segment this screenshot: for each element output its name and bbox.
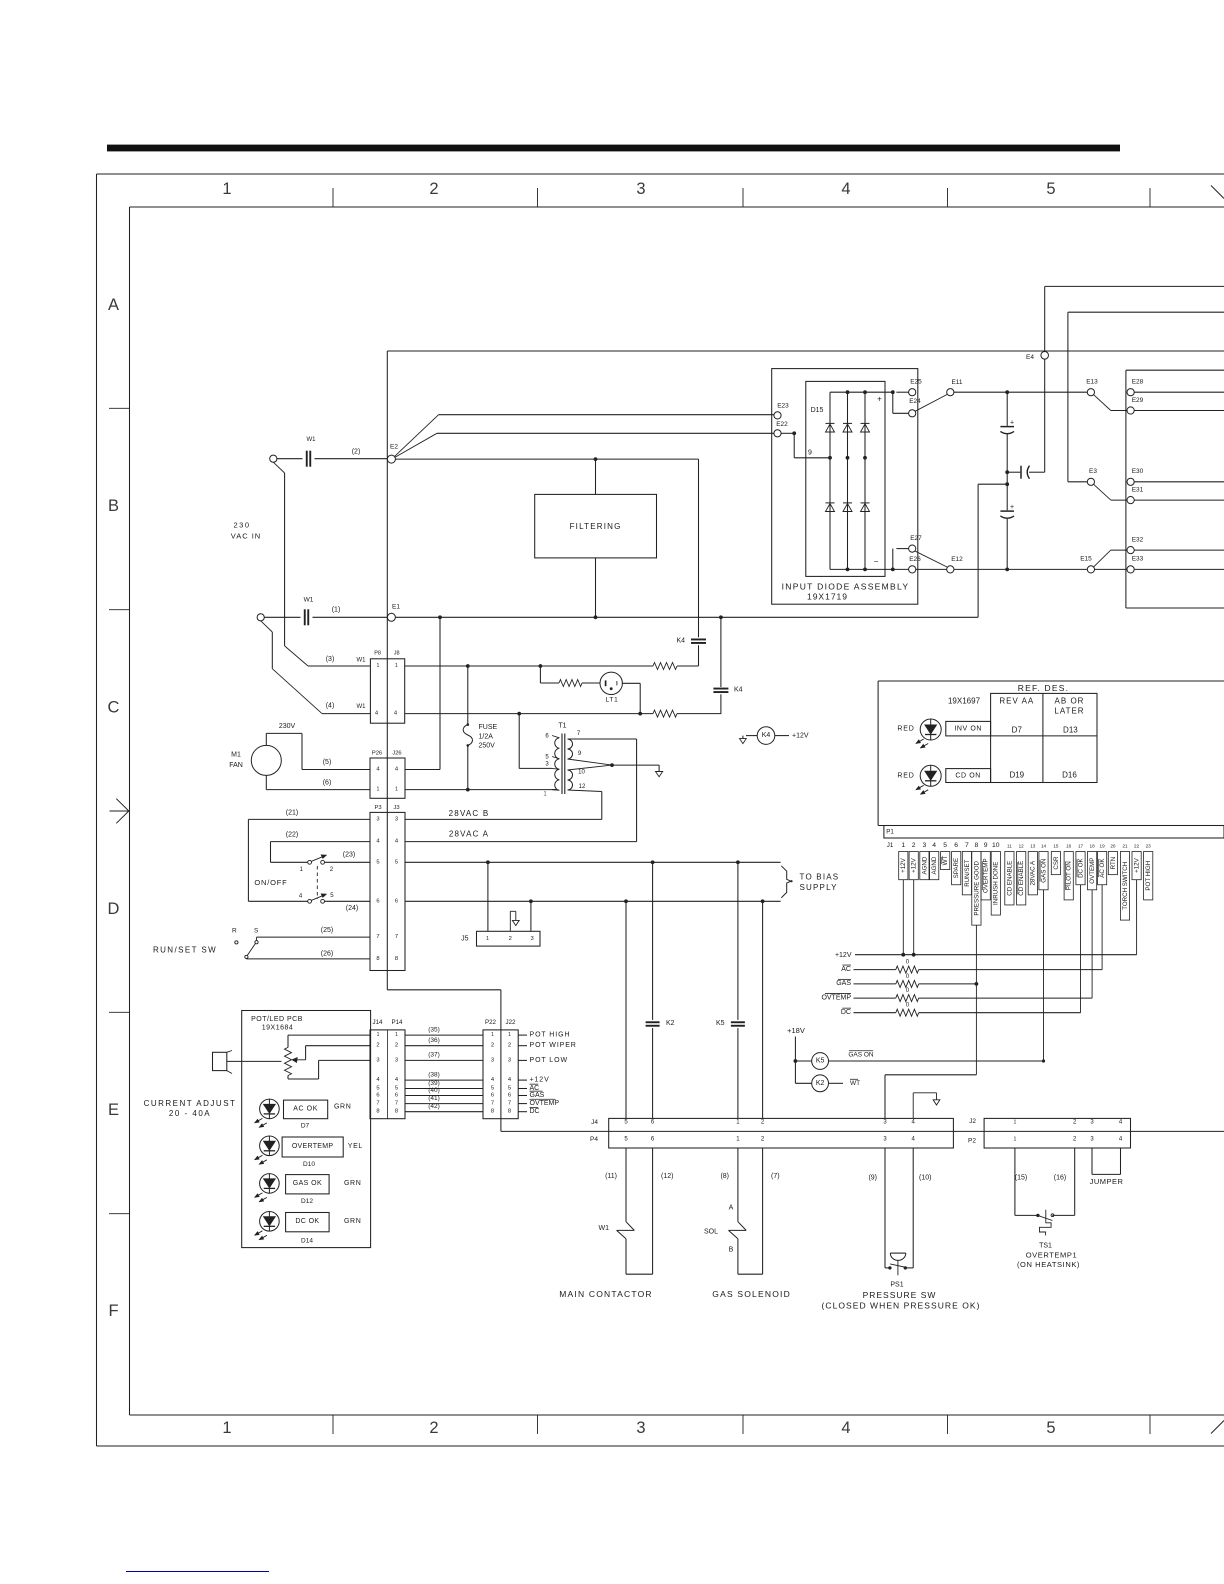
svg-text:7: 7 — [376, 1101, 379, 1107]
svg-text:1: 1 — [377, 663, 380, 669]
svg-text:(3): (3) — [326, 656, 335, 663]
row zone ticks left — [109, 407, 130, 409]
svg-text:PRESSURE SW: PRESSURE SW — [863, 1290, 937, 1300]
svg-text:(41): (41) — [428, 1095, 440, 1102]
svg-text:3: 3 — [1090, 1119, 1094, 1125]
resistor on J8-4 wire — [653, 710, 677, 717]
connector P1/J1 strip — [884, 826, 1224, 839]
svg-text:3: 3 — [376, 816, 379, 822]
svg-text:+12V: +12V — [530, 1077, 550, 1084]
svg-text:J22: J22 — [506, 1019, 517, 1026]
svg-text:POT HIGH: POT HIGH — [1145, 861, 1152, 891]
led D10 OVERTEMP — [260, 1136, 280, 1156]
column zone ticks bottom — [332, 1415, 334, 1434]
brace to bias supply — [781, 866, 791, 898]
svg-text:J1: J1 — [887, 842, 894, 849]
contact K5 — [737, 862, 739, 1020]
svg-text:3: 3 — [923, 842, 927, 849]
T1 pin 1 lead — [552, 789, 559, 792]
svg-text:J4: J4 — [591, 1119, 598, 1126]
svg-text:5: 5 — [376, 1086, 379, 1092]
svg-text:D15: D15 — [811, 407, 824, 414]
svg-text:P14: P14 — [391, 1019, 403, 1026]
pressure switch PS1 — [884, 1148, 886, 1268]
terminal E15 — [1087, 566, 1094, 573]
svg-text:250V: 250V — [479, 743, 496, 750]
jumper on J2 pins 3-4 — [1091, 1148, 1093, 1174]
svg-text:GAS: GAS — [530, 1092, 545, 1099]
svg-text:22: 22 — [1134, 843, 1140, 848]
svg-text:PS1: PS1 — [890, 1282, 903, 1289]
bridge rails — [829, 392, 831, 569]
svg-text:28VAC B: 28VAC B — [449, 809, 490, 818]
T1 pin 7 lead to 28VAC A — [568, 738, 637, 740]
svg-text:(38): (38) — [428, 1071, 440, 1078]
svg-text:2: 2 — [376, 1043, 379, 1049]
svg-text:P4: P4 — [590, 1136, 598, 1143]
wire to E22 — [437, 432, 774, 434]
wire E22 to bridge node 9 — [781, 432, 794, 434]
svg-text:12: 12 — [579, 784, 586, 790]
svg-text:E13: E13 — [1086, 379, 1098, 386]
svg-text:19X1684: 19X1684 — [262, 1025, 294, 1032]
svg-text:T1: T1 — [558, 723, 566, 730]
connector J14/P14 — [370, 1030, 405, 1119]
led D14 DC OK — [260, 1212, 280, 1232]
svg-text:7: 7 — [508, 1101, 511, 1107]
svg-text:E31: E31 — [1132, 487, 1144, 494]
svg-text:3: 3 — [636, 1419, 645, 1437]
svg-text:(4): (4) — [326, 703, 335, 710]
svg-text:E22: E22 — [776, 421, 788, 428]
svg-text:POT/LED PCB: POT/LED PCB — [251, 1016, 303, 1023]
svg-text:CSR: CSR — [1053, 856, 1060, 870]
svg-text:3: 3 — [491, 1057, 494, 1063]
svg-text:1/2A: 1/2A — [479, 734, 494, 741]
svg-text:D10: D10 — [303, 1161, 315, 1168]
svg-text:+: + — [1010, 420, 1014, 427]
ground at K4 — [742, 736, 744, 739]
contact W1 lower — [264, 616, 300, 618]
wire J26-4 to E1 bus — [405, 769, 440, 771]
svg-text:E: E — [108, 1101, 119, 1119]
svg-text:3: 3 — [508, 1057, 511, 1063]
svg-text:ON/OFF: ON/OFF — [254, 878, 287, 887]
potentiometer R1 current adjust — [285, 1047, 292, 1075]
fuse F1 — [467, 666, 469, 725]
svg-text:OVERTEMP1: OVERTEMP1 — [1026, 1251, 1078, 1260]
svg-text:CD ENABLE: CD ENABLE — [1018, 861, 1025, 896]
filter capacitor C2 (bottom electrolytic) — [1005, 482, 1009, 486]
svg-text:2: 2 — [1073, 1137, 1077, 1143]
connector P3/J3 — [370, 812, 405, 970]
svg-text:1: 1 — [395, 1032, 398, 1038]
svg-text:E24: E24 — [909, 398, 921, 405]
wire E27 step to bottom bus — [896, 548, 908, 550]
svg-text:1: 1 — [395, 787, 398, 793]
svg-text:5: 5 — [943, 842, 947, 849]
svg-text:1: 1 — [300, 867, 304, 873]
svg-text:3: 3 — [545, 762, 549, 768]
svg-text:E28: E28 — [1132, 379, 1144, 386]
relay coil K4 — [757, 727, 775, 745]
svg-text:4: 4 — [932, 842, 936, 849]
svg-text:16: 16 — [1066, 843, 1072, 848]
svg-text:D14: D14 — [301, 1238, 313, 1245]
wire (2) corner down through K4 cap to resistor — [698, 459, 700, 637]
svg-text:P1: P1 — [886, 828, 894, 835]
wire E11 to E13 — [954, 391, 1087, 393]
bridge bottom bus — [830, 568, 909, 570]
svg-text:3: 3 — [883, 1137, 887, 1143]
footer link underline — [126, 1571, 269, 1573]
svg-text:P22: P22 — [485, 1019, 497, 1026]
terminal E33 — [1127, 566, 1134, 573]
svg-text:R: R — [232, 927, 237, 934]
svg-text:E12: E12 — [951, 556, 963, 563]
svg-text:FAN: FAN — [229, 762, 243, 769]
svg-text:(7): (7) — [771, 1173, 780, 1180]
ref des region box — [877, 681, 879, 826]
svg-text:8: 8 — [975, 842, 979, 849]
svg-text:(2): (2) — [352, 449, 361, 456]
svg-text:19: 19 — [1100, 843, 1106, 848]
svg-text:D7: D7 — [301, 1123, 310, 1130]
svg-text:2: 2 — [508, 1043, 511, 1049]
svg-text:DC: DC — [530, 1108, 540, 1115]
inner border — [130, 206, 1224, 208]
svg-text:4: 4 — [395, 767, 399, 773]
input terminal lower — [257, 614, 264, 621]
wire E4 to sheet edge — [1044, 286, 1046, 351]
svg-text:3: 3 — [883, 1119, 887, 1125]
input diode assembly outer box — [772, 369, 918, 605]
svg-text:E27: E27 — [910, 535, 922, 542]
connector P26/J26 — [370, 758, 405, 798]
terminal E3 — [1087, 478, 1094, 485]
pot low to P14-3 — [287, 1076, 289, 1080]
svg-text:1: 1 — [1013, 1137, 1016, 1143]
svg-text:7: 7 — [395, 934, 398, 940]
connector J5 — [487, 862, 489, 931]
svg-text:5: 5 — [508, 1086, 511, 1092]
svg-text:11: 11 — [1007, 843, 1012, 848]
svg-text:YEL: YEL — [348, 1143, 363, 1150]
svg-text:7: 7 — [491, 1101, 494, 1107]
svg-text:3: 3 — [395, 816, 398, 822]
wire fan top to P26-4 — [265, 733, 267, 745]
svg-text:RUN/SET: RUN/SET — [964, 859, 971, 886]
svg-text:(12): (12) — [661, 1173, 673, 1180]
svg-text:+12V: +12V — [835, 952, 852, 959]
pot wiper to P14-2 — [292, 1058, 297, 1063]
svg-text:AC OK: AC OK — [1099, 858, 1106, 878]
connector P22/J22 — [483, 1030, 518, 1119]
led D12 GAS OK — [260, 1174, 280, 1194]
svg-text:POT HIGH: POT HIGH — [530, 1032, 571, 1039]
svg-text:1: 1 — [377, 1032, 380, 1038]
terminal E4 — [1041, 352, 1049, 360]
svg-text:W1: W1 — [357, 704, 367, 710]
terminal E25 — [909, 389, 916, 396]
svg-text:28VAC A: 28VAC A — [1030, 860, 1037, 886]
svg-text:D19: D19 — [1009, 770, 1024, 779]
svg-text:2: 2 — [395, 1043, 398, 1049]
output terminal box — [1125, 370, 1127, 608]
zone diagonal top right — [1211, 186, 1224, 199]
off-page arrow at J4-4 — [912, 1093, 914, 1119]
wire fan bottom to P26-1 — [265, 775, 267, 789]
svg-text:CD ENABLE: CD ENABLE — [1006, 861, 1013, 896]
T1 pin 3 lead — [552, 767, 559, 770]
svg-text:4: 4 — [375, 710, 379, 716]
svg-text:INV ON: INV ON — [954, 725, 982, 732]
svg-text:OVTEMP: OVTEMP — [821, 994, 851, 1001]
terminal E23 — [774, 412, 781, 419]
wire E3 from sheet edge — [1068, 311, 1224, 313]
svg-text:8: 8 — [376, 956, 379, 962]
svg-text:5: 5 — [624, 1137, 628, 1143]
terminal E24 — [909, 410, 916, 417]
svg-text:(5): (5) — [323, 759, 332, 766]
bridge diodes upper row — [826, 424, 835, 432]
svg-text:PILOT ON: PILOT ON — [1066, 861, 1073, 890]
svg-text:CD ON: CD ON — [955, 772, 981, 779]
resistor on J8-1 wire — [653, 663, 677, 670]
wire E1 bus to capacitor midpoint — [395, 616, 978, 618]
svg-text:8: 8 — [376, 1109, 379, 1115]
svg-text:W1: W1 — [599, 1225, 610, 1232]
terminal E13 — [1087, 389, 1094, 396]
connector J4/P4 — [609, 1118, 954, 1148]
svg-text:REF. DES.: REF. DES. — [1018, 683, 1069, 693]
svg-text:6: 6 — [508, 1093, 511, 1099]
svg-text:D: D — [108, 900, 120, 918]
svg-text:10: 10 — [992, 842, 1000, 849]
svg-text:E2: E2 — [390, 444, 398, 451]
svg-text:1: 1 — [486, 936, 489, 942]
svg-text:−: − — [874, 557, 879, 566]
svg-text:4: 4 — [395, 1077, 399, 1083]
svg-text:(15): (15) — [1015, 1175, 1027, 1182]
svg-text:21: 21 — [1122, 843, 1128, 848]
svg-text:6: 6 — [395, 898, 398, 904]
svg-text:OVERTEMP: OVERTEMP — [983, 858, 990, 893]
svg-text:AC OK: AC OK — [293, 1105, 318, 1112]
svg-text:DC OK: DC OK — [1077, 857, 1084, 877]
svg-text:6: 6 — [545, 733, 549, 739]
T1 pin 6 stub — [552, 736, 559, 738]
bridge D15 box — [806, 381, 885, 576]
connector J2/P2 — [984, 1118, 1130, 1148]
wire J26-1 to fuse and T1 pin1 — [405, 789, 557, 791]
J22 signal labels — [518, 1034, 527, 1036]
wire E15 to E33 — [1095, 568, 1128, 570]
svg-text:OVTEMP: OVTEMP — [530, 1100, 560, 1107]
svg-text:5: 5 — [395, 859, 398, 865]
capacitor K4 contact upper — [691, 638, 706, 640]
svg-text:JUMPER: JUMPER — [1090, 1177, 1124, 1186]
svg-text:(10): (10) — [919, 1175, 931, 1182]
terminal E1 — [387, 613, 395, 621]
svg-text:RED: RED — [897, 772, 914, 779]
pot/led pcb box — [242, 1011, 371, 1248]
svg-text:0: 0 — [906, 974, 910, 980]
svg-text:4: 4 — [491, 1077, 495, 1083]
svg-text:M1: M1 — [231, 752, 241, 759]
svg-text:W1: W1 — [304, 597, 314, 604]
svg-text:10: 10 — [578, 770, 585, 776]
svg-text:P26: P26 — [372, 751, 382, 757]
svg-text:3: 3 — [395, 1057, 398, 1063]
wire E27 to E12 — [915, 551, 947, 567]
svg-text:(37): (37) — [428, 1052, 440, 1059]
zone arrow marker left — [110, 810, 129, 812]
svg-text:C: C — [108, 699, 120, 717]
svg-text:(36): (36) — [428, 1037, 440, 1044]
svg-text:P2: P2 — [968, 1138, 976, 1145]
svg-text:GRN: GRN — [334, 1103, 351, 1110]
svg-text:1: 1 — [377, 787, 380, 793]
svg-text:12: 12 — [1019, 843, 1025, 848]
bridge mid bus — [828, 456, 832, 460]
svg-text:5: 5 — [624, 1119, 628, 1125]
wire diagonals E2 to E23/E22 — [395, 415, 439, 457]
svg-text:FILTERING: FILTERING — [570, 522, 622, 531]
svg-text:B: B — [729, 1247, 734, 1254]
svg-text:1: 1 — [736, 1119, 740, 1125]
bias capacitor to E4 — [1007, 471, 1020, 473]
terminal E2 — [387, 455, 395, 463]
wires P14 to P22 — [405, 1034, 483, 1036]
off-page arrow at J5-2 — [509, 911, 511, 931]
wire 28VAC B — [405, 818, 602, 820]
svg-text:P3: P3 — [374, 805, 381, 811]
svg-text:8: 8 — [508, 1109, 511, 1115]
svg-text:AGND: AGND — [931, 856, 938, 874]
svg-text:7: 7 — [577, 731, 581, 737]
svg-text:(1): (1) — [332, 607, 341, 614]
svg-text:TORCH SWITCH: TORCH SWITCH — [1122, 862, 1129, 910]
svg-text:TS1: TS1 — [1039, 1243, 1052, 1250]
svg-text:4: 4 — [376, 1077, 380, 1083]
svg-text:LATER: LATER — [1054, 706, 1084, 715]
wire E13 to E29 — [1094, 395, 1111, 411]
svg-text:VAC IN: VAC IN — [231, 532, 261, 541]
svg-text:5: 5 — [545, 754, 549, 760]
svg-text:5: 5 — [1046, 1419, 1055, 1437]
svg-text:E23: E23 — [777, 403, 789, 410]
svg-text:E15: E15 — [1080, 556, 1092, 563]
contact K2 — [652, 862, 654, 1020]
wire E15 to E32 — [1094, 550, 1111, 567]
svg-text:W1: W1 — [357, 658, 367, 664]
bridge top bus — [830, 391, 893, 393]
wire LT1 to J8-4 wire — [622, 682, 640, 684]
svg-text:1: 1 — [491, 1032, 494, 1038]
svg-text:20: 20 — [1110, 843, 1116, 848]
svg-text:J26: J26 — [392, 751, 401, 757]
svg-text:8: 8 — [491, 1109, 494, 1115]
svg-text:J5: J5 — [461, 936, 469, 943]
wire E24 to E11 — [915, 395, 947, 412]
wire 28VAC A — [405, 841, 637, 843]
svg-text:J8: J8 — [394, 650, 400, 656]
bridge diodes lower row — [826, 504, 835, 512]
svg-text:9: 9 — [984, 842, 988, 849]
page frame: top rule bar — [107, 145, 1120, 152]
svg-text:J2: J2 — [969, 1118, 976, 1125]
svg-text:2: 2 — [761, 1119, 765, 1125]
svg-text:3: 3 — [376, 1057, 379, 1063]
svg-text:POT LOW: POT LOW — [530, 1057, 568, 1064]
svg-text:4: 4 — [299, 893, 303, 899]
svg-text:1: 1 — [901, 842, 905, 849]
wire upper terminal to P8-1 — [273, 462, 284, 473]
svg-text:D7: D7 — [1012, 726, 1023, 735]
terminal E30 — [1127, 478, 1134, 485]
svg-text:9: 9 — [808, 449, 812, 456]
svg-text:1: 1 — [395, 663, 398, 669]
svg-text:(26): (26) — [321, 951, 333, 958]
+12V rail from J1 pins 1,2,22 — [902, 880, 904, 955]
svg-text:RTN: RTN — [1110, 857, 1117, 870]
svg-text:LT1: LT1 — [605, 697, 618, 704]
svg-text:E1: E1 — [392, 604, 400, 611]
svg-text:OVERTEMP: OVERTEMP — [292, 1143, 334, 1150]
svg-text:2: 2 — [429, 180, 438, 198]
svg-text:E33: E33 — [1132, 556, 1144, 563]
svg-text:K4: K4 — [734, 687, 743, 694]
svg-text:7: 7 — [395, 1101, 398, 1107]
svg-text:(6): (6) — [323, 780, 332, 787]
svg-text:28VAC A: 28VAC A — [449, 830, 489, 839]
svg-text:REV AA: REV AA — [999, 697, 1034, 706]
wire E26 to E12 to filter caps — [916, 568, 947, 570]
svg-text:D13: D13 — [1063, 726, 1078, 735]
connector P8/J8 — [370, 659, 404, 723]
svg-text:FUSE: FUSE — [479, 724, 498, 731]
svg-text:AB OR: AB OR — [1055, 697, 1085, 706]
svg-text:15: 15 — [1053, 843, 1059, 848]
fan motor M1 — [251, 745, 281, 775]
svg-text:9: 9 — [578, 751, 582, 757]
svg-text:WT: WT — [850, 1080, 860, 1087]
svg-text:AC: AC — [841, 966, 851, 973]
svg-text:2: 2 — [912, 842, 916, 849]
svg-text:3: 3 — [1090, 1137, 1094, 1143]
svg-text:K4: K4 — [762, 732, 771, 739]
svg-text:K5: K5 — [716, 1020, 725, 1027]
svg-text:(22): (22) — [286, 832, 298, 839]
wire J8-1 east — [405, 665, 653, 667]
filtering box — [535, 494, 657, 558]
svg-text:E26: E26 — [909, 556, 921, 563]
svg-text:8: 8 — [395, 1109, 398, 1115]
wire bias to J4-5 — [625, 901, 627, 1118]
switch ON/OFF — [248, 818, 370, 820]
ref des table — [991, 693, 1097, 782]
terminal E28 — [1127, 389, 1134, 396]
svg-text:4: 4 — [841, 1419, 850, 1437]
svg-text:P8: P8 — [374, 650, 381, 656]
svg-text:(23): (23) — [343, 852, 355, 859]
svg-text:DC: DC — [841, 1009, 851, 1016]
svg-text:MAIN CONTACTOR: MAIN CONTACTOR — [559, 1289, 652, 1299]
svg-text:8: 8 — [395, 956, 398, 962]
svg-text:E11: E11 — [951, 379, 962, 386]
svg-text:6: 6 — [491, 1093, 494, 1099]
